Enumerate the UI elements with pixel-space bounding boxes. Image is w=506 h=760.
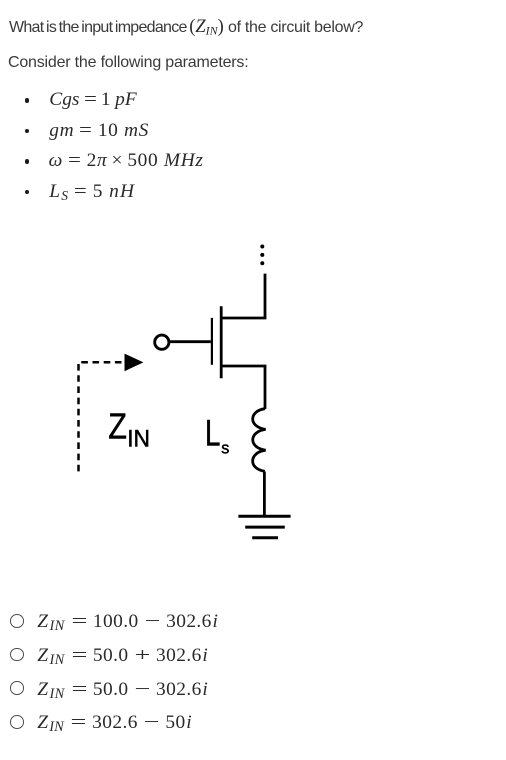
bullet 1 dot (25, 98, 30, 103)
bullet 3: omega = 2 pi x 500 MHz (49, 150, 204, 172)
label ZIN (108, 407, 150, 451)
bullet 4: LS = 5 nH (49, 181, 135, 204)
inductor LS (253, 409, 266, 472)
transistor M1 (212, 306, 267, 378)
Zin dashed arrow (79, 362, 127, 471)
radio 2 (10, 648, 24, 662)
svg-text:IN: IN (127, 425, 150, 452)
wire drain vertical (264, 274, 267, 318)
radio 3 (10, 681, 24, 695)
ground (238, 516, 290, 538)
source lead (221, 365, 266, 368)
svg-text:L: L (205, 412, 220, 454)
drain lead (221, 317, 266, 320)
bullet 1: Cgs = 1 pF (49, 89, 136, 111)
gate bar (211, 318, 213, 365)
wire to ground (263, 472, 266, 517)
Zin arrowhead (125, 354, 144, 372)
svg-text:s: s (221, 438, 229, 457)
channel bar (220, 306, 223, 378)
question title (9, 17, 363, 39)
bullet 4 dot (25, 190, 30, 195)
wire gate (170, 340, 211, 343)
bullet 3 dot (25, 159, 30, 164)
wire source vertical (264, 366, 267, 409)
label LS (205, 412, 229, 458)
svg-text:Z: Z (108, 407, 127, 447)
radio 4 (10, 715, 24, 729)
node VDD continuation dots (260, 245, 264, 266)
radio 1 (10, 614, 24, 628)
input terminal circle (155, 335, 169, 349)
bullet 2 dot (25, 129, 30, 134)
subtitle (8, 54, 248, 72)
bullet 2: gm = 10 mS (49, 120, 149, 142)
